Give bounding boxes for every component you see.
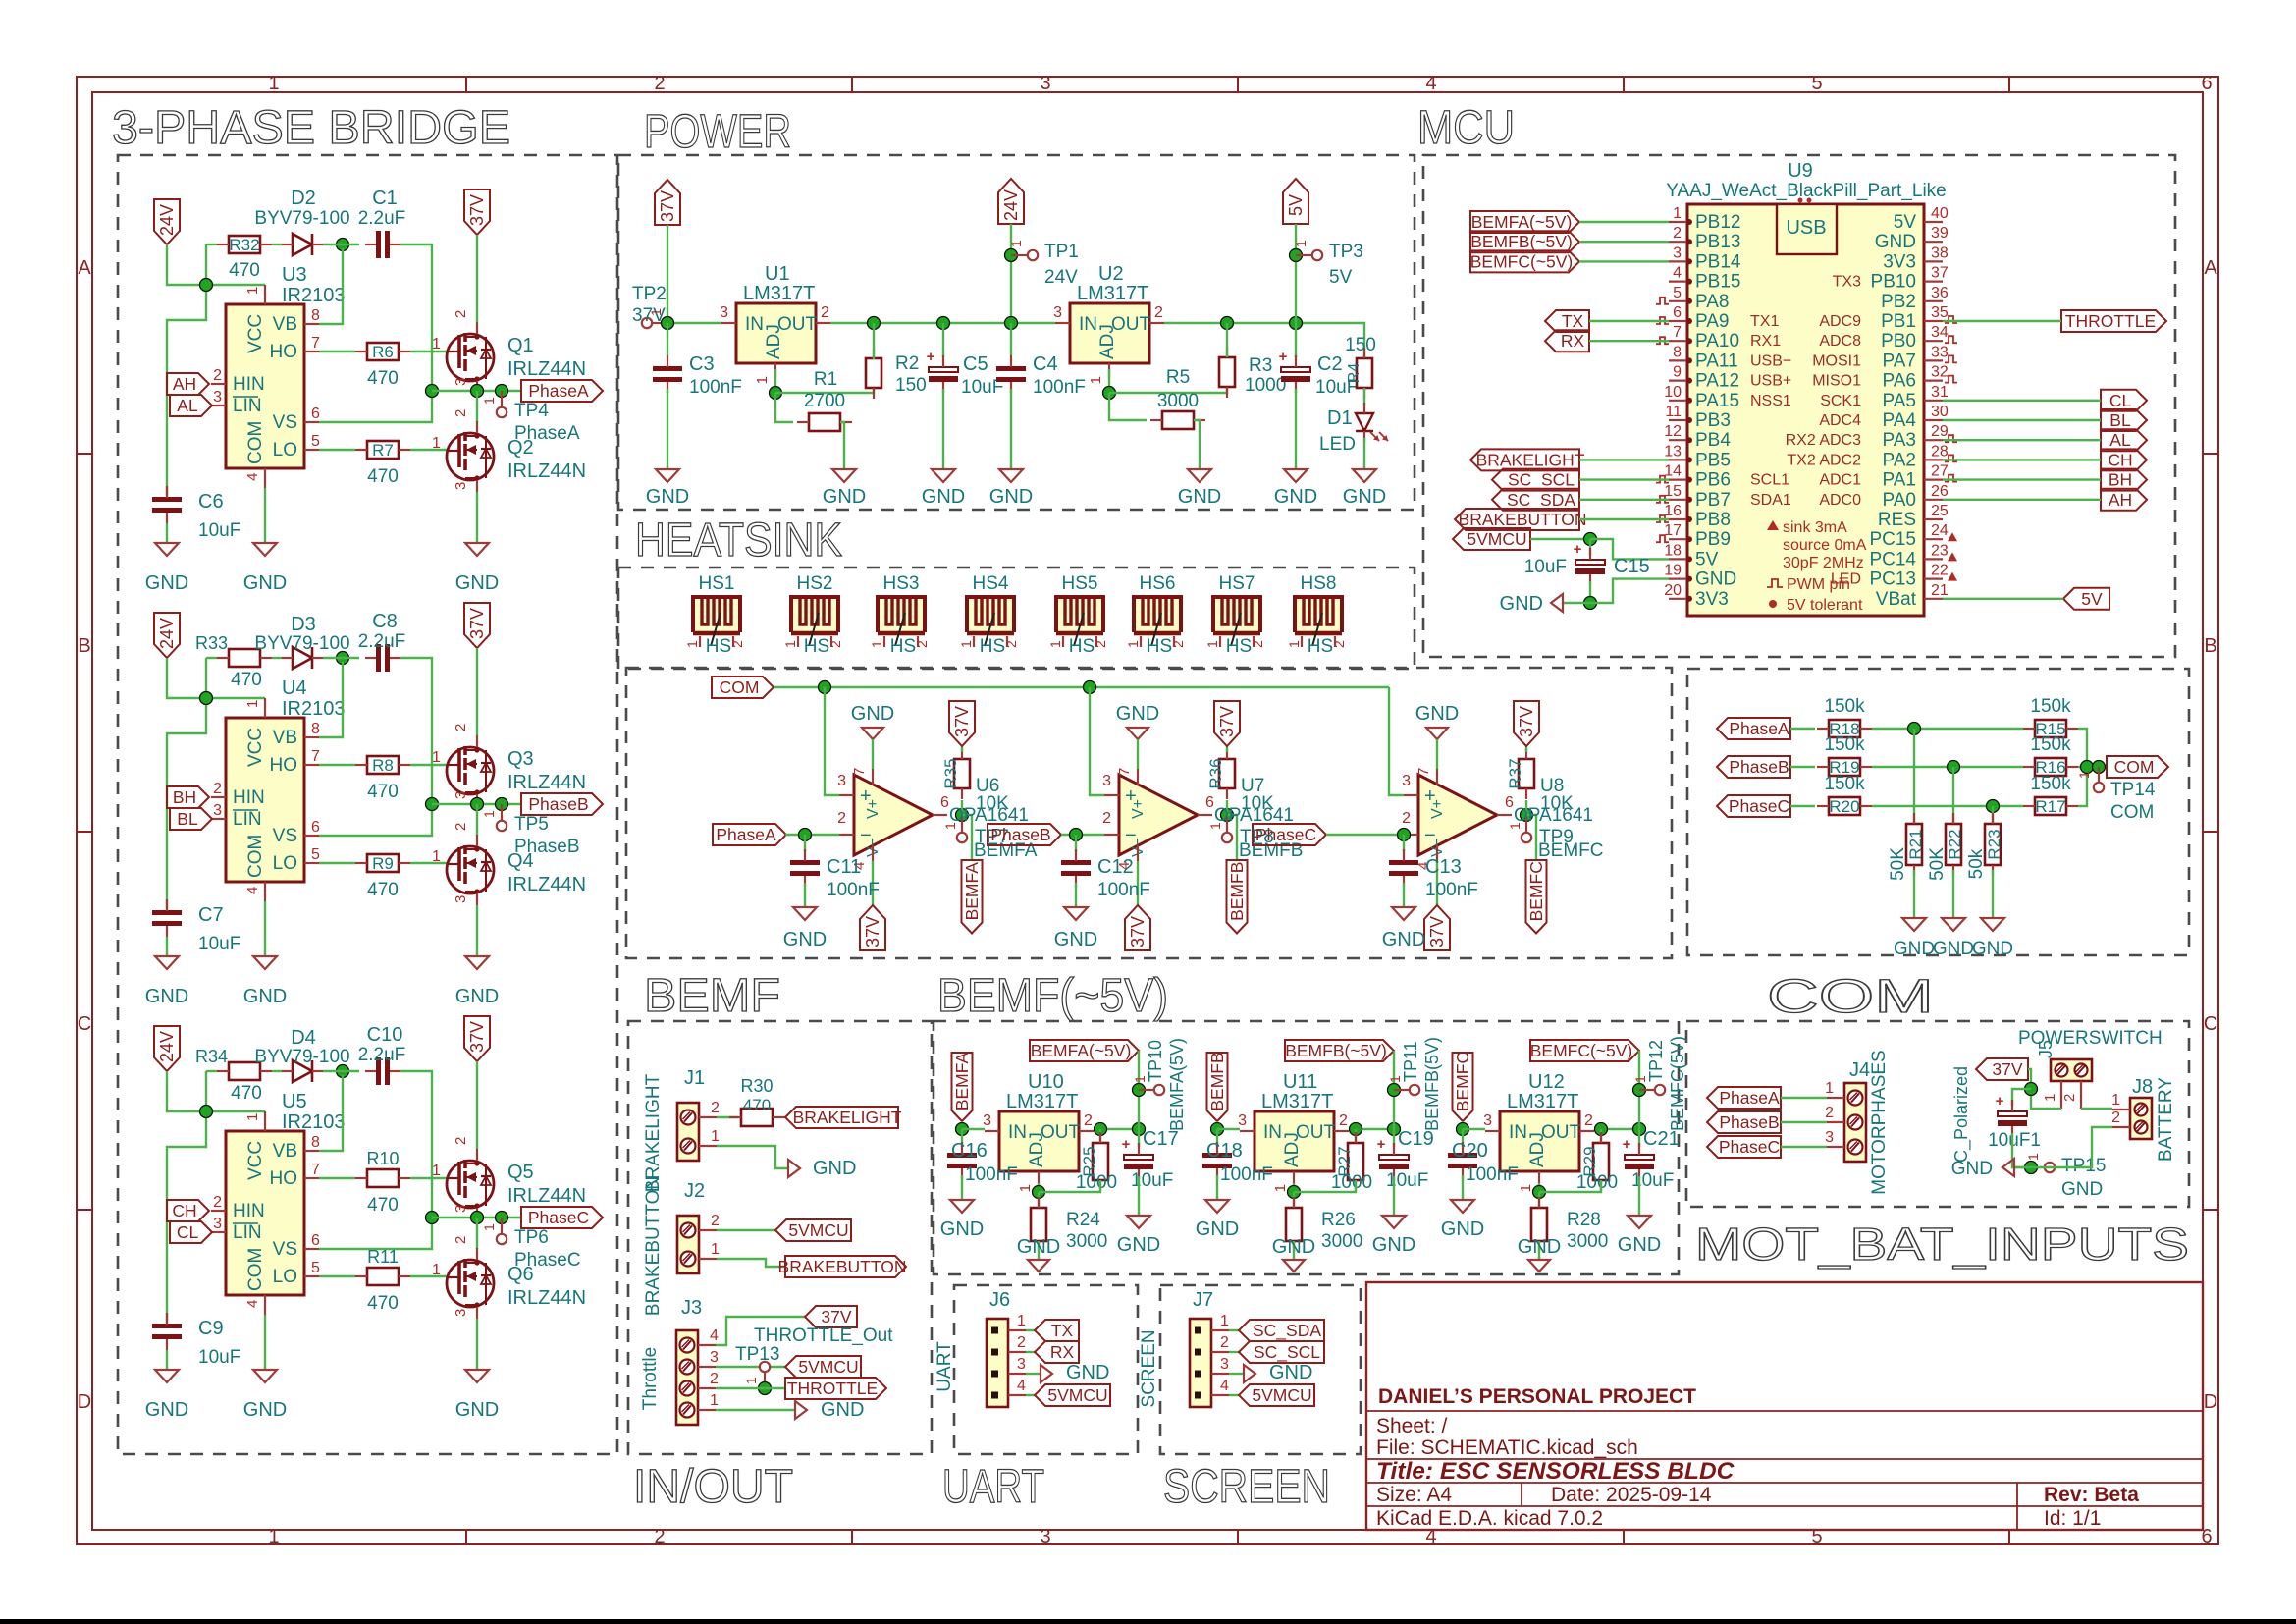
svg-text:+: + — [1279, 349, 1288, 365]
svg-text:150: 150 — [1345, 335, 1376, 355]
svg-text:PA8: PA8 — [1695, 292, 1730, 312]
svg-text:9: 9 — [1673, 364, 1682, 381]
svg-text:37V: 37V — [1992, 1059, 2022, 1079]
svg-text:GND: GND — [243, 1399, 287, 1421]
svg-text:24V: 24V — [1001, 189, 1021, 221]
svg-text:PA4: PA4 — [1882, 410, 1916, 431]
svg-text:5: 5 — [311, 433, 320, 450]
svg-text:C9: C9 — [198, 1318, 224, 1339]
svg-text:3: 3 — [1483, 1112, 1492, 1129]
svg-text:KiCad E.D.A. kicad 7.0.2: KiCad E.D.A. kicad 7.0.2 — [1376, 1507, 1603, 1530]
svg-text:LM317T: LM317T — [1507, 1091, 1578, 1112]
svg-text:2: 2 — [654, 1526, 665, 1547]
svg-text:Throttle: Throttle — [640, 1347, 661, 1410]
svg-text:GND: GND — [1518, 1236, 1561, 1258]
svg-text:PB4: PB4 — [1695, 430, 1731, 451]
svg-text:OPA1641: OPA1641 — [1514, 805, 1593, 826]
svg-text:Q2: Q2 — [507, 437, 534, 459]
svg-text:150k: 150k — [2030, 774, 2071, 794]
svg-text:BEMFC: BEMFC — [1538, 840, 1604, 861]
svg-text:GND: GND — [1875, 232, 1916, 252]
svg-text:1: 1 — [2025, 1153, 2041, 1161]
svg-text:VB: VB — [273, 1141, 297, 1162]
svg-text:U12: U12 — [1528, 1071, 1565, 1093]
svg-text:R33: R33 — [195, 633, 228, 653]
svg-text:31: 31 — [1931, 384, 1949, 401]
svg-text:IRLZ44N: IRLZ44N — [507, 1287, 586, 1309]
svg-text:NSS1: NSS1 — [1750, 393, 1791, 409]
svg-text:C5: C5 — [963, 353, 988, 375]
svg-text:1: 1 — [1204, 640, 1220, 648]
svg-text:1: 1 — [1293, 240, 1308, 247]
svg-text:BEMFB(5V): BEMFB(5V) — [1422, 1037, 1442, 1131]
svg-text:U10: U10 — [1028, 1071, 1064, 1093]
svg-text:6: 6 — [311, 819, 320, 836]
svg-text:1: 1 — [432, 1163, 441, 1179]
svg-text:U9: U9 — [1788, 160, 1813, 182]
svg-text:3V3: 3V3 — [1695, 589, 1729, 610]
svg-text:100nF: 100nF — [1033, 377, 1086, 398]
svg-text:+: + — [1623, 1136, 1631, 1153]
svg-text:PB14: PB14 — [1695, 251, 1741, 272]
svg-text:Title: ESC SENSORLESS BLDC: Title: ESC SENSORLESS BLDC — [1376, 1458, 1735, 1485]
svg-text:+: + — [1996, 1093, 2004, 1110]
svg-text:TX: TX — [1051, 1321, 1074, 1340]
svg-text:U11: U11 — [1283, 1071, 1317, 1093]
svg-text:4: 4 — [1220, 1378, 1229, 1394]
svg-text:150k: 150k — [2030, 696, 2071, 717]
svg-text:USB−: USB− — [1750, 352, 1791, 369]
svg-text:100nF: 100nF — [1425, 880, 1478, 900]
svg-text:1: 1 — [743, 1377, 759, 1384]
svg-text:CH: CH — [2108, 450, 2132, 469]
svg-text:ADC0: ADC0 — [1819, 492, 1861, 509]
svg-text:HO: HO — [270, 1168, 298, 1189]
svg-text:1: 1 — [754, 376, 771, 384]
svg-text:BEMFC(5V): BEMFC(5V) — [1668, 1036, 1687, 1131]
svg-text:RX: RX — [1561, 331, 1585, 351]
svg-text:4: 4 — [1425, 73, 1436, 94]
svg-text:34: 34 — [1931, 324, 1949, 341]
svg-text:BEMFB: BEMFB — [1207, 1052, 1227, 1110]
svg-text:Rev: Beta: Rev: Beta — [2044, 1484, 2139, 1506]
svg-text:SCREEN: SCREEN — [1139, 1329, 1159, 1407]
svg-text:1: 1 — [711, 1128, 720, 1145]
svg-text:C20: C20 — [1452, 1140, 1488, 1162]
svg-text:17: 17 — [1664, 522, 1682, 539]
svg-text:VB: VB — [273, 728, 297, 748]
svg-text:GND: GND — [145, 986, 188, 1007]
svg-text:R4: R4 — [1346, 363, 1362, 384]
svg-text:YAAJ_WeAct_BlackPill_Part_Like: YAAJ_WeAct_BlackPill_Part_Like — [1666, 181, 1946, 201]
svg-text:4: 4 — [244, 473, 261, 481]
svg-text:2: 2 — [1017, 1334, 1026, 1351]
svg-text:COM: COM — [2114, 757, 2155, 777]
svg-text:J8: J8 — [2132, 1076, 2153, 1098]
svg-text:sink 3mA: sink 3mA — [1783, 519, 1847, 536]
svg-text:BYV79-100: BYV79-100 — [254, 633, 349, 654]
svg-text:C11: C11 — [827, 856, 861, 878]
svg-text:24V: 24V — [157, 204, 177, 236]
svg-text:3: 3 — [720, 304, 728, 321]
svg-text:GND: GND — [989, 486, 1033, 508]
svg-text:POWER: POWER — [644, 106, 791, 158]
svg-text:IR2103: IR2103 — [282, 285, 346, 306]
svg-text:5V: 5V — [1695, 549, 1719, 569]
svg-text:1: 1 — [244, 287, 261, 295]
svg-text:12: 12 — [1664, 423, 1682, 440]
svg-text:2.2uF: 2.2uF — [358, 631, 406, 652]
svg-text:1: 1 — [711, 1241, 720, 1258]
svg-text:HS: HS — [706, 636, 731, 657]
svg-text:38: 38 — [1931, 244, 1949, 261]
svg-text:VCC: VCC — [245, 314, 266, 353]
svg-text:3: 3 — [1040, 73, 1050, 94]
svg-text:2: 2 — [213, 781, 222, 797]
svg-text:U1: U1 — [765, 263, 790, 285]
svg-text:5V: 5V — [1286, 194, 1306, 216]
svg-text:C2: C2 — [1317, 353, 1343, 375]
svg-text:470: 470 — [367, 368, 399, 389]
svg-text:GND: GND — [1951, 1159, 1993, 1179]
svg-text:1: 1 — [1220, 1313, 1229, 1329]
svg-text:GND: GND — [1894, 939, 1935, 959]
svg-text:R22: R22 — [1946, 829, 1964, 859]
svg-text:4: 4 — [244, 887, 261, 894]
svg-text:PA1: PA1 — [1882, 470, 1916, 491]
svg-text:LIN: LIN — [233, 396, 262, 416]
svg-text:LM317T: LM317T — [1261, 1091, 1333, 1112]
svg-text:MCU: MCU — [1417, 102, 1515, 154]
svg-text:C16: C16 — [951, 1140, 988, 1162]
svg-text:GND: GND — [823, 486, 866, 508]
svg-text:IN: IN — [1509, 1122, 1527, 1143]
svg-text:24V: 24V — [157, 618, 177, 649]
svg-text:HS6: HS6 — [1140, 573, 1176, 594]
svg-text:50K: 50K — [1927, 847, 1948, 881]
svg-text:C6: C6 — [198, 491, 224, 513]
svg-text:3: 3 — [837, 773, 846, 789]
svg-text:PhaseB: PhaseB — [528, 794, 588, 814]
svg-text:CL: CL — [177, 1222, 199, 1242]
svg-text:SCK1: SCK1 — [1820, 393, 1861, 409]
svg-text:1: 1 — [869, 640, 884, 648]
svg-text:10uF: 10uF — [198, 934, 240, 954]
svg-text:VS: VS — [273, 412, 297, 433]
svg-text:COM: COM — [245, 835, 266, 878]
svg-text:R17: R17 — [2035, 797, 2065, 816]
svg-text:4: 4 — [1017, 1378, 1026, 1394]
svg-text:1: 1 — [684, 640, 700, 648]
svg-text:BRAKELIGHT: BRAKELIGHT — [643, 1073, 664, 1192]
svg-text:2: 2 — [1402, 810, 1411, 827]
svg-text:R10: R10 — [366, 1149, 399, 1168]
svg-text:50K: 50K — [1888, 847, 1908, 881]
svg-text:470: 470 — [367, 466, 399, 487]
svg-text:8: 8 — [311, 307, 320, 324]
svg-text:2: 2 — [213, 1194, 222, 1211]
svg-text:SC_SCL: SC_SCL — [1508, 470, 1575, 491]
svg-text:1: 1 — [432, 749, 441, 766]
svg-text:SDA1: SDA1 — [1750, 492, 1791, 509]
svg-text:PB5: PB5 — [1695, 450, 1731, 470]
svg-text:3: 3 — [213, 1216, 222, 1232]
svg-text:BH: BH — [2109, 470, 2132, 490]
svg-text:D1: D1 — [1327, 407, 1353, 429]
svg-text:PB12: PB12 — [1695, 212, 1740, 233]
svg-text:LO: LO — [273, 853, 297, 874]
svg-text:1: 1 — [2042, 1094, 2058, 1102]
svg-text:GND: GND — [1196, 1218, 1239, 1240]
svg-text:AH: AH — [2109, 490, 2132, 510]
svg-text:A: A — [78, 257, 91, 279]
svg-text:SCREEN: SCREEN — [1163, 1461, 1330, 1513]
svg-text:GND: GND — [1972, 939, 2013, 959]
svg-text:PA12: PA12 — [1695, 371, 1739, 392]
svg-text:37: 37 — [1931, 265, 1949, 282]
svg-text:LO: LO — [273, 440, 297, 460]
svg-text:ADC8: ADC8 — [1819, 333, 1861, 350]
svg-text:1: 1 — [432, 1262, 441, 1278]
svg-text:PhaseA: PhaseA — [1729, 719, 1789, 738]
svg-text:CL: CL — [2109, 391, 2132, 410]
svg-text:LO: LO — [273, 1267, 297, 1287]
svg-text:1: 1 — [1017, 1313, 1026, 1329]
svg-text:1: 1 — [1017, 1184, 1034, 1192]
svg-text:PhaseB: PhaseB — [990, 825, 1050, 844]
svg-text:7: 7 — [311, 1162, 320, 1178]
svg-text:TP6: TP6 — [514, 1227, 549, 1248]
svg-text:V+: V+ — [1130, 799, 1147, 819]
svg-text:100nF: 100nF — [827, 880, 880, 900]
svg-text:470: 470 — [229, 260, 260, 281]
svg-text:VBat: VBat — [1876, 589, 1917, 610]
svg-text:R32: R32 — [229, 236, 259, 254]
svg-text:470: 470 — [367, 1293, 399, 1314]
svg-text:2: 2 — [914, 640, 930, 648]
svg-text:2: 2 — [1220, 1334, 1229, 1351]
svg-text:PhaseC: PhaseC — [528, 1208, 589, 1227]
svg-text:LM317T: LM317T — [1006, 1091, 1078, 1112]
svg-text:7: 7 — [311, 748, 320, 765]
svg-text:BEMFA(5V): BEMFA(5V) — [1167, 1038, 1187, 1131]
svg-text:TP10: TP10 — [1146, 1040, 1165, 1082]
svg-text:J7: J7 — [1193, 1289, 1213, 1311]
svg-text:1: 1 — [432, 848, 441, 865]
svg-text:3: 3 — [453, 378, 469, 386]
svg-text:GND: GND — [1441, 1218, 1484, 1240]
svg-text:1: 1 — [432, 435, 441, 452]
svg-text:TP14: TP14 — [2110, 780, 2156, 800]
svg-text:10: 10 — [1664, 384, 1682, 401]
svg-text:PhaseC: PhaseC — [1719, 1137, 1780, 1157]
svg-text:R9: R9 — [372, 854, 394, 873]
svg-text:BEMFC: BEMFC — [1453, 1052, 1472, 1111]
svg-text:GND: GND — [1272, 1236, 1315, 1258]
svg-text:U3: U3 — [282, 264, 307, 286]
svg-text:3: 3 — [983, 1112, 991, 1129]
svg-text:BEMF: BEMF — [644, 970, 780, 1022]
svg-text:GND: GND — [1695, 569, 1736, 590]
svg-text:J4: J4 — [1849, 1059, 1870, 1081]
svg-text:U4: U4 — [282, 677, 307, 699]
svg-text:3: 3 — [453, 1309, 469, 1317]
svg-text:PhaseA: PhaseA — [716, 825, 776, 844]
svg-text:AL: AL — [2109, 430, 2131, 450]
svg-text:THROTTLE: THROTTLE — [787, 1379, 878, 1398]
svg-text:LED: LED — [1319, 434, 1356, 455]
svg-text:GND: GND — [813, 1158, 856, 1179]
svg-text:Size: A4: Size: A4 — [1376, 1484, 1452, 1506]
svg-text:IN: IN — [1263, 1122, 1282, 1143]
svg-text:LM317T: LM317T — [1077, 283, 1148, 304]
svg-text:RX2 ADC3: RX2 ADC3 — [1786, 432, 1861, 449]
svg-text:GND: GND — [1066, 1362, 1109, 1383]
svg-text:ADJ: ADJ — [764, 324, 784, 359]
svg-text:1: 1 — [958, 640, 974, 648]
svg-text:BRAKEBUTTON: BRAKEBUTTON — [643, 1176, 664, 1316]
svg-text:25: 25 — [1931, 503, 1949, 519]
svg-text:8: 8 — [311, 1134, 320, 1151]
svg-text:50k: 50k — [1966, 848, 1987, 879]
svg-text:5: 5 — [1673, 285, 1682, 301]
svg-text:2: 2 — [710, 1371, 719, 1387]
svg-text:HS: HS — [980, 636, 1005, 657]
svg-text:BEMFA: BEMFA — [952, 1053, 972, 1111]
svg-text:D2: D2 — [291, 188, 316, 209]
svg-text:2: 2 — [1084, 1112, 1093, 1129]
svg-text:7: 7 — [311, 335, 320, 352]
svg-text:37V: 37V — [1517, 706, 1536, 737]
svg-text:1: 1 — [1518, 1184, 1534, 1192]
svg-text:1: 1 — [1125, 640, 1141, 648]
svg-text:R30: R30 — [740, 1076, 773, 1096]
svg-text:LIN: LIN — [233, 1222, 262, 1243]
svg-text:LM317T: LM317T — [743, 283, 815, 304]
svg-text:COM: COM — [2110, 802, 2154, 823]
svg-text:10uF: 10uF — [198, 1347, 240, 1368]
svg-text:GND: GND — [783, 929, 827, 950]
svg-text:16: 16 — [1664, 503, 1682, 519]
svg-text:BL: BL — [2109, 410, 2131, 430]
svg-text:PB6: PB6 — [1695, 470, 1731, 491]
svg-text:GND: GND — [1116, 703, 1159, 725]
svg-text:PA5: PA5 — [1882, 391, 1916, 411]
svg-text:3: 3 — [1825, 1129, 1834, 1146]
svg-text:3: 3 — [1102, 773, 1111, 789]
svg-text:27: 27 — [1931, 463, 1949, 480]
svg-text:ADJ: ADJ — [1097, 324, 1118, 359]
svg-text:COM: COM — [245, 421, 266, 464]
svg-text:30pF 2MHz: 30pF 2MHz — [1783, 555, 1864, 571]
svg-text:40: 40 — [1931, 205, 1949, 222]
svg-text:B: B — [78, 635, 90, 657]
svg-text:HS3: HS3 — [883, 573, 920, 594]
svg-text:GND: GND — [940, 1218, 984, 1240]
svg-text:PhaseB: PhaseB — [1719, 1112, 1779, 1132]
svg-text:14: 14 — [1664, 463, 1682, 480]
svg-text:PA7: PA7 — [1882, 351, 1916, 371]
svg-text:GND: GND — [1500, 593, 1543, 615]
svg-text:GND: GND — [1933, 939, 1974, 959]
svg-text:32: 32 — [1931, 364, 1949, 381]
svg-text:6: 6 — [1505, 794, 1514, 811]
svg-text:1000: 1000 — [1245, 375, 1286, 396]
svg-text:1: 1 — [1825, 1080, 1834, 1097]
svg-text:5V tolerant: 5V tolerant — [1787, 597, 1863, 614]
svg-text:BEMFA(~5V): BEMFA(~5V) — [1471, 212, 1573, 232]
svg-text:IRLZ44N: IRLZ44N — [507, 358, 586, 380]
svg-text:2: 2 — [837, 810, 846, 827]
svg-text:AL: AL — [177, 396, 198, 415]
svg-text:1: 1 — [244, 1113, 261, 1121]
svg-text:AH: AH — [173, 374, 196, 394]
svg-text:R6: R6 — [372, 343, 394, 361]
svg-text:GND: GND — [851, 703, 894, 725]
svg-text:D3: D3 — [291, 614, 316, 635]
svg-text:1: 1 — [481, 810, 497, 818]
svg-text:IRLZ44N: IRLZ44N — [507, 772, 586, 793]
svg-text:C12: C12 — [1097, 856, 1134, 878]
svg-text:100nF: 100nF — [1220, 1164, 1273, 1185]
svg-text:1: 1 — [268, 1526, 279, 1547]
svg-text:PhaseC: PhaseC — [1255, 825, 1316, 844]
svg-text:37V: 37V — [821, 1307, 851, 1326]
svg-text:C1: C1 — [372, 188, 398, 209]
svg-text:2.2uF: 2.2uF — [358, 1045, 406, 1065]
svg-text:C3: C3 — [689, 353, 715, 375]
svg-text:PC15: PC15 — [1869, 529, 1916, 550]
svg-text:13: 13 — [1664, 443, 1682, 460]
svg-text:R37: R37 — [1506, 758, 1524, 788]
svg-text:RX: RX — [1050, 1342, 1075, 1362]
svg-text:2: 2 — [1093, 640, 1108, 648]
svg-text:21: 21 — [1931, 582, 1949, 599]
svg-text:TP13: TP13 — [735, 1344, 779, 1365]
svg-text:3-PHASE BRIDGE: 3-PHASE BRIDGE — [112, 102, 510, 154]
svg-text:3: 3 — [213, 802, 222, 819]
svg-text:1: 1 — [782, 640, 798, 648]
svg-text:R7: R7 — [372, 441, 394, 460]
svg-text:470: 470 — [231, 670, 262, 690]
svg-text:2: 2 — [213, 367, 222, 384]
svg-text:PA3: PA3 — [1882, 430, 1916, 451]
svg-text:3: 3 — [1220, 1356, 1229, 1373]
svg-text:UART: UART — [942, 1461, 1044, 1513]
svg-text:GND: GND — [455, 1399, 499, 1421]
svg-text:PC13: PC13 — [1869, 569, 1916, 590]
svg-text:IN: IN — [1079, 314, 1097, 335]
svg-text:5VMCU: 5VMCU — [788, 1220, 848, 1240]
svg-text:GND: GND — [821, 1399, 864, 1421]
svg-text:COM: COM — [720, 677, 760, 697]
svg-text:U5: U5 — [282, 1091, 307, 1112]
svg-text:PA2: PA2 — [1882, 450, 1916, 470]
svg-text:R8: R8 — [372, 756, 394, 775]
svg-text:2: 2 — [654, 73, 665, 94]
svg-text:100nF: 100nF — [1097, 880, 1150, 900]
svg-text:1: 1 — [244, 700, 261, 708]
svg-text:HO: HO — [270, 755, 298, 776]
svg-text:Q4: Q4 — [507, 850, 534, 872]
svg-text:37V: 37V — [1128, 916, 1148, 947]
svg-text:BRAKELIGHT: BRAKELIGHT — [1476, 450, 1585, 469]
svg-text:USB: USB — [1786, 217, 1826, 239]
svg-text:24: 24 — [1931, 522, 1949, 539]
svg-text:VCC: VCC — [245, 728, 266, 767]
svg-text:ADC4: ADC4 — [1819, 412, 1861, 429]
svg-text:5V: 5V — [1329, 267, 1353, 288]
